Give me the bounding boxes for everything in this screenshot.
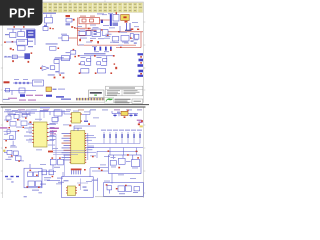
- svg-text:PDF: PDF: [9, 7, 35, 21]
- triple rail lines: [53, 151, 86, 176]
- bottom-left magenta parts: [3, 95, 43, 101]
- sub-circuit frame (snubber box): [78, 53, 117, 74]
- filter line 2: [4, 88, 36, 95]
- U4 label: [61, 34, 67, 35]
- U12 inner wires: [77, 179, 88, 191]
- red dot under caps: [52, 176, 54, 177]
- revision cell: [132, 99, 143, 103]
- pull-up resistor fan: [88, 132, 140, 144]
- bottom right box: [104, 183, 144, 197]
- PDF badge: [0, 0, 43, 26]
- top right wire group page2: [112, 111, 138, 117]
- left input cluster page2: [4, 110, 44, 121]
- output caps small: [131, 40, 137, 43]
- IC U10 (left DIP): [32, 122, 48, 147]
- connector J1: [45, 15, 53, 27]
- logo box Schneider: [89, 90, 105, 98]
- wires around Y1: [64, 110, 90, 120]
- title block outer: [106, 86, 143, 96]
- input small boxes: [6, 113, 27, 126]
- bridge rectifier BR1: [110, 12, 119, 26]
- stubs into U10: [28, 125, 32, 143]
- zener D8 box: [54, 56, 70, 64]
- title strip text page2: [115, 99, 131, 104]
- title divider: [106, 90, 143, 96]
- bottom right text: [119, 192, 138, 194]
- wire runs left of U11: [53, 130, 57, 154]
- net text mid: [55, 57, 64, 58]
- capacitor C30: [84, 121, 90, 125]
- lower center bits: [48, 71, 65, 76]
- cluster above center: [52, 110, 62, 122]
- driver labels: [111, 157, 139, 168]
- wire VCC rail left: [7, 29, 35, 45]
- page separator dark: [0, 105, 149, 107]
- comparator cluster: [50, 159, 63, 169]
- cap bank labels: [94, 50, 109, 53]
- mid right wires: [88, 148, 143, 158]
- title text rows: [107, 87, 140, 95]
- extra red wire stubs: [88, 28, 132, 51]
- net pin marks top: [13, 26, 24, 28]
- red test points: [54, 77, 65, 79]
- label above U11: [74, 128, 82, 129]
- regulator U6 filled: [24, 53, 30, 59]
- transformer T1: [121, 15, 130, 23]
- bottom gray rule: [95, 196, 143, 198]
- IC U2 comparator: [6, 39, 28, 45]
- driver box right: [109, 155, 142, 174]
- right edge connector cluster: [137, 120, 143, 128]
- red marker top of U11: [69, 125, 71, 127]
- snubber labels: [106, 34, 129, 43]
- wires from U10 right: [49, 125, 59, 141]
- diode D5 output: [131, 28, 140, 30]
- left edge cluster marks: [5, 130, 19, 148]
- net entry extra: [50, 133, 56, 134]
- left edge cluster text: [4, 134, 16, 146]
- wires to bottom box: [63, 168, 112, 192]
- driver red pins: [118, 154, 139, 168]
- left mid cluster page2: [4, 150, 21, 160]
- red pins cluster: [7, 117, 32, 128]
- chain small bits: [5, 56, 11, 58]
- U11 left pin labels: [62, 133, 70, 160]
- caps on wire: [113, 112, 137, 116]
- U12 red pin: [79, 184, 81, 185]
- left small chain: [5, 176, 19, 177]
- page 1 border frame: [3, 2, 144, 102]
- page 1 sheet background: [0, 0, 149, 198]
- bottom right red pins: [106, 184, 127, 189]
- U11 top wires: [74, 126, 96, 131]
- capacitor C5 bulk: [125, 23, 132, 30]
- wire feedback red: [69, 37, 78, 39]
- chain label: [7, 179, 12, 180]
- U3 inner marks: [94, 31, 97, 35]
- transistor Q3 lower: [17, 46, 25, 50]
- opamp input dot: [40, 67, 61, 75]
- F1 labels: [80, 16, 95, 17]
- varistor RV1: [46, 87, 57, 92]
- border grid ticks page2: [1, 125, 146, 193]
- page2 annotations: [10, 110, 136, 185]
- capacitor C2: [5, 34, 33, 47]
- mid right text: [86, 149, 92, 150]
- cluster text: [5, 157, 13, 160]
- border grid ticks page1: [1, 0, 146, 90]
- U11 right wires: [86, 135, 97, 152]
- net label N1: [43, 13, 56, 27]
- tall box labels: [11, 181, 42, 197]
- wire AC line red: [74, 18, 143, 48]
- MCU U11 (center DIP): [70, 131, 87, 164]
- revision table (top strip): [3, 3, 143, 13]
- inductor L2: [130, 34, 139, 40]
- resistor R3: [4, 41, 13, 43]
- tall box red pins: [26, 170, 39, 188]
- page 2 header net labels row: [5, 109, 142, 110]
- regulator chain left: [4, 55, 30, 59]
- connector dots row: [76, 98, 105, 100]
- aux connector J2: [43, 27, 54, 31]
- input tiny labels: [4, 111, 35, 127]
- right margin red pins: [140, 56, 142, 74]
- resistor bodies fan: [103, 134, 141, 138]
- aux box D8: [66, 49, 76, 54]
- resistor array RN1: [71, 169, 86, 175]
- IC U1 driver: [26, 30, 35, 38]
- net labels row page2: [8, 107, 50, 115]
- caps pair: [38, 170, 60, 181]
- wire center node: [54, 54, 70, 74]
- power section annotations: [77, 14, 139, 47]
- red dot row: [11, 151, 53, 162]
- U10 left labels: [24, 128, 32, 141]
- U12 side parts: [64, 180, 98, 191]
- logo 2 green: [105, 97, 114, 103]
- extra labels under table: [97, 13, 113, 14]
- U10 right labels: [50, 123, 56, 140]
- PWM controller U3: [79, 29, 101, 36]
- resistor R11: [79, 39, 99, 44]
- red dots top right of box: [98, 168, 102, 171]
- opamp U5: [42, 66, 55, 71]
- AC input label: [4, 81, 10, 83]
- red pins top mid: [71, 26, 75, 28]
- mid right red ticks: [92, 150, 137, 157]
- red tick right of box: [74, 56, 76, 58]
- diode D2 cluster: [66, 15, 75, 25]
- transistor Q1: [10, 32, 16, 37]
- red pins comparator: [51, 157, 60, 158]
- filter line 2 text: [58, 89, 65, 90]
- EMI labels: [14, 79, 42, 83]
- tall IO box left: [24, 164, 42, 188]
- capacitor C12: [12, 52, 32, 62]
- left edge cluster page2: [4, 130, 19, 145]
- U3 labels: [80, 25, 109, 39]
- page 2 frame: [3, 108, 144, 199]
- relay K1: [121, 110, 129, 118]
- red pads lower: [10, 48, 14, 51]
- transistor Q2: [18, 32, 25, 37]
- opto U4: [58, 36, 69, 41]
- capacitor CX1: [101, 20, 103, 24]
- left edge yellow part: [3, 150, 5, 152]
- snubber network: [112, 26, 129, 41]
- fan labels: [101, 130, 142, 131]
- page 1 bottom border: [3, 101, 144, 103]
- U2 label: [18, 41, 25, 42]
- EEPROM U12: [62, 177, 94, 198]
- blue parts bottom: [20, 94, 64, 97]
- EMI filter chain: [13, 80, 44, 86]
- right margin stack: [138, 53, 144, 77]
- bus wire top page2: [6, 112, 70, 116]
- resistor R15: [46, 43, 60, 50]
- net entries magenta: [0, 127, 59, 132]
- net label small blue: [61, 98, 71, 100]
- capacitor bank C7 C8 C9: [94, 47, 112, 51]
- bus right of U11: [87, 133, 89, 160]
- fuse F1 input block: [79, 18, 100, 24]
- caps pair labels: [40, 167, 64, 185]
- crystal Y1 (small IC): [70, 113, 81, 124]
